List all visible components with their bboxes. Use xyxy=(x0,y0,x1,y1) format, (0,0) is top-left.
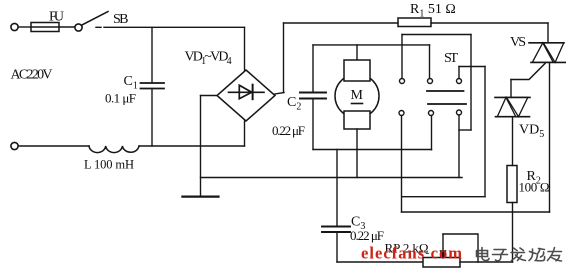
wire riser x=283.5 (bridge DC+ up to R1 rail) xyxy=(283,23,285,93)
svg-text:0.22 μF: 0.22 μF xyxy=(350,228,384,243)
svg-text:AC220V: AC220V xyxy=(11,67,53,82)
motor bottom brush rect xyxy=(344,111,370,129)
potentiometer RP wiper arrow xyxy=(442,234,444,252)
wire C3 bottom lead xyxy=(336,232,338,262)
svg-text:ST: ST xyxy=(444,51,458,66)
ST top contact circle 1 xyxy=(400,79,405,84)
fuse FU xyxy=(31,23,59,32)
wire VS bottom lead (MT1 down to rail H) xyxy=(549,62,551,212)
wire ST bottom 3 stub down to rail F xyxy=(458,115,460,178)
capacitor C3 plates xyxy=(322,226,350,228)
wire R2 bottom lead xyxy=(512,203,514,263)
svg-text:VD5: VD5 xyxy=(519,123,544,141)
wire C2 top lead xyxy=(312,45,314,93)
triac VS top bar xyxy=(529,42,564,44)
svg-text:L 100 mH: L 100 mH xyxy=(84,158,134,172)
wire T3 to inductor xyxy=(18,145,89,147)
svg-text:FU: FU xyxy=(49,10,64,25)
wire ST bottom 2 stub down to rail D xyxy=(431,116,433,150)
terminal T1 (AC top-left) xyxy=(11,23,18,30)
motor bottom lead xyxy=(356,129,358,178)
wire top R1 rail left segment xyxy=(284,22,399,24)
switch SB fixed contact dash xyxy=(96,26,101,28)
wire AC bottom rail to bridge bottom junction xyxy=(139,145,245,147)
wire rail F (motor return to ground vertical) xyxy=(201,177,463,179)
svg-text:0.22 μF: 0.22 μF xyxy=(272,123,305,138)
wire rail G xyxy=(402,196,485,198)
bridge rectifier VD1-VD4 diamond xyxy=(217,70,275,121)
triac VS bottom bar xyxy=(531,61,566,63)
diac VD bottom bar xyxy=(496,116,530,118)
inductor L 100 mH xyxy=(89,146,139,153)
diac VD left triangle (points up) xyxy=(497,97,516,116)
terminal T3 (AC bottom-left) xyxy=(11,142,18,149)
wire bridge top lead xyxy=(244,27,246,70)
wire rail A corner down to ST contact 2 xyxy=(429,45,431,79)
ST bottom contact circle 1 xyxy=(399,111,404,116)
bridge diode bar xyxy=(252,85,254,100)
wire ST bottom 3 branch right xyxy=(459,129,471,131)
svg-text:M: M xyxy=(351,88,364,103)
wire ST right link vertical x=471 xyxy=(470,35,472,131)
wire ST contact 3 top branch xyxy=(459,66,485,68)
diac VD top bar xyxy=(495,96,530,98)
bridge diode triangle xyxy=(239,85,251,99)
wire RP wiper bracket xyxy=(443,234,478,262)
ST bottom contact circle 2 xyxy=(429,111,434,116)
ground xyxy=(182,196,218,198)
capacitor C1 plates xyxy=(141,82,165,84)
wire motor top lead xyxy=(356,45,358,60)
svg-text:R1 51 Ω: R1 51 Ω xyxy=(410,2,456,20)
wire C1 top lead xyxy=(151,27,153,83)
svg-text:0.1 μF: 0.1 μF xyxy=(105,91,136,106)
wire C1 bottom lead xyxy=(151,89,153,147)
potentiometer RP body xyxy=(423,258,460,268)
svg-text:VS: VS xyxy=(510,35,526,50)
svg-text:VD1~VD4: VD1~VD4 xyxy=(185,50,232,68)
wire rail I left (C3 to RP) xyxy=(337,261,423,263)
resistor R1 51 ohm xyxy=(398,18,431,27)
wire bridge left corner to ground vertical xyxy=(201,95,218,97)
wire top rail AC (SB to bridge top) xyxy=(104,26,245,28)
motor M letter underline xyxy=(352,103,363,105)
terminal T2 xyxy=(75,24,82,31)
wire VD top lead xyxy=(510,80,512,98)
wire fuse to T2 xyxy=(59,26,75,28)
wire rail G elbow vertical x=485 xyxy=(484,67,486,197)
ST lower plate xyxy=(428,103,466,105)
wire ST contact 3 top stub xyxy=(458,67,460,79)
wire VS gate diagonal xyxy=(511,64,545,80)
motor top brush rect xyxy=(344,60,370,81)
ST bottom contact circle 3 xyxy=(457,110,462,115)
wire ground vertical (bridge left down to ground) xyxy=(200,96,202,196)
svg-text:elecfans-com: elecfans-com xyxy=(361,244,462,263)
motor M circle xyxy=(335,74,379,118)
diac VD right triangle (points down) xyxy=(507,97,528,116)
svg-text:C1: C1 xyxy=(124,74,138,92)
svg-text:100 Ω: 100 Ω xyxy=(519,180,550,195)
wire ST bottom 1 stub down to rail H xyxy=(401,116,403,213)
wire rail I right (RP to R2 bottom lead) xyxy=(460,261,513,263)
resistor R2 100 ohm xyxy=(507,166,517,203)
wire rail H xyxy=(402,211,550,213)
wire top R1 rail right segment xyxy=(431,22,548,24)
triac VS right triangle (points down) xyxy=(543,43,563,63)
wire ST contact 1 top stub xyxy=(401,35,403,79)
switch SB blade xyxy=(82,12,109,26)
svg-text:SB: SB xyxy=(113,12,129,27)
wire T1 to fuse xyxy=(18,26,31,28)
wire rail D (C2 return) xyxy=(313,149,432,151)
wire VS top lead xyxy=(547,23,549,43)
ST upper plate xyxy=(427,90,464,92)
wire C3 top lead from rail D xyxy=(336,150,338,227)
wire rail A (motor top rail) xyxy=(313,44,430,46)
ST top contact circle 2 xyxy=(428,79,433,84)
wire bridge bottom lead xyxy=(244,121,246,146)
wire C2 bottom lead xyxy=(312,99,314,150)
triac VS left triangle (points up) xyxy=(532,43,553,63)
watermark chinese characters dian zi fa shao you (drawn strokes) xyxy=(477,248,562,262)
wire bridge right corner to top rail riser xyxy=(275,93,284,95)
wire R2 top lead to VD bottom xyxy=(512,117,514,166)
capacitor C2 plates xyxy=(300,92,326,94)
ST top contact circle 3 xyxy=(457,79,462,84)
wire rail B (ST top link) xyxy=(402,34,471,36)
bridge diode line xyxy=(229,91,265,93)
